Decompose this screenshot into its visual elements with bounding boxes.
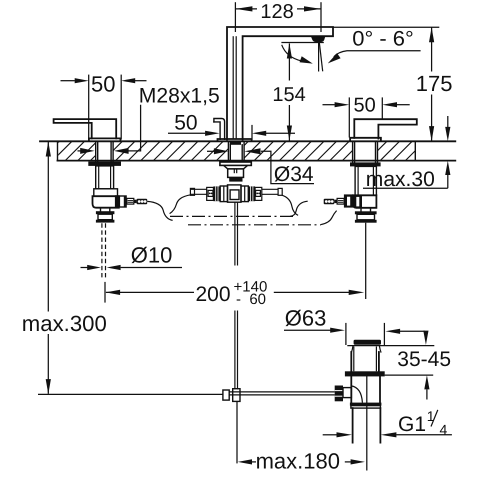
svg-text:max.30: max.30 [366, 168, 435, 191]
left valve flange [88, 162, 121, 166]
drain lever knob [335, 386, 352, 402]
dimension 154 [272, 43, 305, 140]
centre shank walls in deck [228, 141, 244, 161]
centre tee flange under deck [220, 162, 251, 165]
svg-text:154: 154 [272, 84, 305, 106]
tee left coupling [207, 186, 228, 202]
spout outlet reference line [281, 42, 323, 44]
label G1 1/4 [323, 408, 452, 438]
svg-text:35-45: 35-45 [397, 348, 451, 371]
left valve shank in deck [96, 141, 113, 161]
tee hose curve left [170, 195, 191, 214]
dimension max.30 [363, 116, 450, 191]
spout angle tilt lines [319, 36, 323, 71]
angle arc arrow left [282, 45, 313, 64]
aerator [311, 36, 325, 42]
right hose ring piece [337, 198, 344, 204]
pop-up lift rod knob [214, 119, 225, 140]
deck top line [40, 140, 455, 142]
left valve inlet pipes dashed [102, 223, 106, 279]
hose centreline upper [170, 215, 296, 217]
drain tailpipe [353, 408, 381, 443]
right valve flange [350, 162, 381, 166]
centre shank top dark seal [230, 142, 241, 145]
deck left edge [57, 141, 59, 160]
svg-text:175: 175 [416, 71, 453, 96]
right hose to valve curve [290, 201, 308, 216]
pop-up rod from tee [235, 202, 238, 389]
svg-text:M28x1,5: M28x1,5 [139, 84, 220, 107]
hose centreline lower [188, 224, 321, 226]
dimension max.180 [238, 448, 365, 473]
0-6 degree leader [328, 51, 421, 64]
countertop deck with hatching [40, 141, 480, 160]
svg-text:50: 50 [91, 72, 115, 97]
drain lock nut [350, 403, 382, 409]
drain neck [351, 347, 379, 372]
left hose flange nut [115, 195, 127, 207]
dimension 128 [235, 1, 321, 32]
right valve elbow [353, 195, 377, 208]
left hose ring piece [127, 198, 137, 204]
centre tee body [228, 185, 242, 202]
tee left tube [190, 188, 206, 195]
svg-text:- 60: - 60 [236, 291, 266, 308]
right handle base plate [350, 138, 381, 141]
dimension max.300 [19, 141, 111, 394]
deck bottom line [58, 160, 456, 162]
left handle [54, 119, 117, 138]
drain body [351, 376, 380, 402]
svg-text:max.180: max.180 [256, 448, 340, 473]
centre escutcheon plate [218, 139, 252, 141]
svg-text:Ø34: Ø34 [274, 163, 314, 186]
svg-text:128: 128 [260, 1, 293, 23]
rod coupler [223, 389, 240, 402]
drain pop-up waste cap [351, 340, 381, 353]
right valve lock nut [355, 211, 377, 222]
left handle base plate [89, 138, 121, 141]
dimension 200 with tolerance [105, 278, 364, 308]
left valve elbow [93, 196, 119, 208]
right valve connector to nut [361, 208, 371, 212]
svg-text:200: 200 [196, 283, 231, 306]
right valve axis extension line [365, 223, 367, 299]
label M28x1,5 with leader [78, 84, 220, 153]
right hose flange nut [344, 194, 362, 207]
label diameter 34 with leader [207, 148, 314, 186]
label diameter 63 [284, 306, 425, 345]
svg-text:Ø63: Ø63 [285, 306, 327, 331]
right valve shank in deck [353, 141, 378, 162]
dimension diameter 10 [81, 243, 183, 271]
left flexible hose curve [147, 201, 172, 220]
dimension 50 left handle [61, 72, 147, 140]
svg-text:max.300: max.300 [22, 311, 107, 336]
right valve body [355, 166, 376, 195]
rod lower extension [236, 401, 238, 463]
tee hose curve right [282, 195, 298, 215]
left braided hose end [137, 199, 148, 205]
tee right coupling [241, 186, 262, 202]
svg-text:G1: G1 [398, 413, 426, 436]
right braided hose end [324, 199, 337, 205]
dimension 50 right handle [323, 95, 410, 138]
deck right edge [414, 141, 416, 160]
left valve connector to nut [101, 208, 110, 212]
dimension 35-45 [347, 331, 451, 400]
horizontal pop-up linkage rod [229, 392, 335, 395]
bottom reference line [38, 393, 223, 395]
drain flange [345, 371, 385, 376]
svg-text:0° - 6°: 0° - 6° [352, 27, 414, 50]
spout body [227, 27, 333, 140]
tee right tube [262, 188, 282, 195]
right handle [354, 119, 417, 138]
svg-text:50: 50 [354, 95, 376, 117]
left valve body [94, 166, 118, 196]
dimension 175 [333, 27, 453, 141]
dimension 50 centre escutcheon [168, 112, 295, 140]
centre shank stack [224, 166, 247, 182]
svg-text:50: 50 [174, 112, 197, 135]
svg-text:Ø10: Ø10 [131, 243, 173, 268]
left valve lock nut [96, 211, 115, 222]
drain centreline [366, 372, 368, 471]
